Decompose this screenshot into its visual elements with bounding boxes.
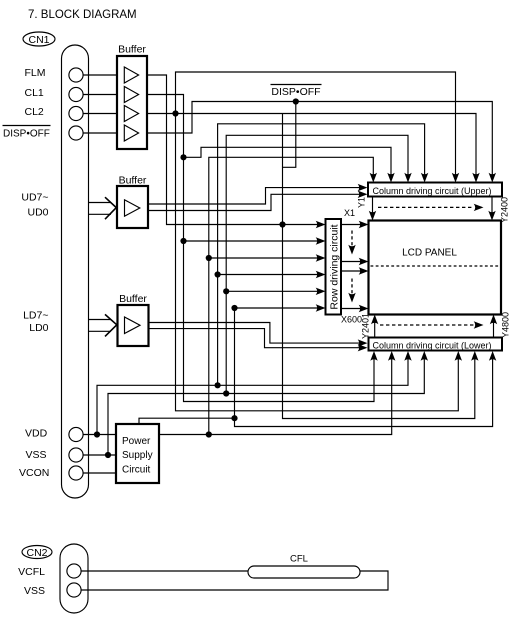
connector CN1 label [23,32,55,46]
wire UD bus to upper column line 1 [148,188,360,204]
connector CN2 label [22,546,52,559]
pin CL2 [25,106,84,121]
wire VDD raw row feed [218,274,318,276]
wire CL2 line to trunk segment [282,114,284,168]
pin VCFL [18,564,81,578]
svg-text:Power: Power [122,436,151,447]
svg-text:DISP•OFF: DISP•OFF [3,129,50,140]
pin VSS [26,448,84,462]
svg-text:Y4800: Y4800 [501,312,510,338]
svg-text:X600: X600 [341,315,362,325]
svg-text:FLM: FLM [25,67,46,79]
svg-text:X1: X1 [344,208,355,218]
svg-text:DISP•OFF: DISP•OFF [271,86,320,98]
wire row box to panel X600 arrow [341,308,361,310]
wire CL2 net [147,114,476,176]
dashed arrow Y2401 to Y4800 [380,324,474,326]
svg-text:Circuit: Circuit [122,465,151,476]
wire power box VDD output [159,359,392,435]
svg-text:Buffer: Buffer [118,44,146,56]
wire VDD raw branch [97,359,408,435]
power supply box [116,424,159,483]
wire CL1 upper branch [184,147,392,175]
pin DISP•OFF [3,126,84,141]
label LD7~LD0 [23,310,49,335]
wire upper box to panel left [372,197,374,214]
dashed arrow X1 sequence [351,231,353,247]
connector CN2 body [60,544,88,613]
svg-text:CN2: CN2 [26,547,47,559]
wire CL1 net [147,95,374,402]
wire VDD raw trunk up [218,124,425,386]
svg-text:VDD: VDD [25,428,48,440]
column driving circuit (Upper) box [368,183,502,197]
wire VCFL to CFL [81,570,248,572]
wire VCON pin to power box [83,472,116,474]
wire upper box to panel right [491,197,493,214]
column driving circuit (Lower) box [369,338,503,351]
label UD7~UD0 [21,192,48,219]
pin VCON [19,466,83,480]
wire power box top output [139,359,493,427]
wire VSS pin to power box [83,454,116,456]
wire LD bus input [89,314,117,336]
svg-text:7. BLOCK DIAGRAM: 7. BLOCK DIAGRAM [28,9,137,21]
dashed arrow X600 sequence [351,279,353,295]
buffer U2 box [117,175,148,229]
wire UD bus input [89,197,117,219]
wire CL1 row feed [184,240,318,242]
pin VDD [25,427,83,441]
wire power output trunk up [209,157,373,434]
svg-text:Y1: Y1 [357,197,367,208]
wire FLM pin to buffer [83,74,117,76]
svg-text:UD0: UD0 [27,207,48,219]
connector CN1 body [62,45,89,498]
row driving circuit box [326,219,342,315]
lamp CFL [248,554,360,579]
svg-text:LCD PANEL: LCD PANEL [402,248,457,259]
pin VSS CN2 [24,583,81,597]
wire CL2 pin to buffer [83,113,117,115]
svg-text:Y2400: Y2400 [500,197,510,223]
wire UD bus to upper column line 2 [148,194,360,210]
wire CL1 pin to buffer [83,94,117,96]
wire DISPOFF net [147,102,492,176]
svg-text:Row driving circuit: Row driving circuit [328,224,340,309]
svg-text:UD7~: UD7~ [21,192,48,204]
label DISP•OFF mid [271,85,322,99]
svg-text:Column driving circuit (Lower): Column driving circuit (Lower) [373,340,492,350]
svg-text:VCFL: VCFL [18,566,45,578]
svg-text:CN1: CN1 [28,34,49,46]
svg-text:VCON: VCON [19,467,49,479]
svg-text:VSS: VSS [24,585,45,597]
wire LD bus to lower column line 2 [149,329,360,348]
svg-text:Buffer: Buffer [119,293,147,305]
dashed arrow Y1 to Y2400 [378,206,474,208]
svg-text:LD0: LD0 [29,322,48,334]
wire row box to panel mid arrow b [341,270,361,272]
wire VSS raw branch [108,359,424,455]
pin CL1 [25,87,84,102]
wire lower box to panel right [493,322,495,338]
svg-text:CFL: CFL [290,554,308,565]
wire DISPOFF pin to buffer [83,132,117,134]
svg-text:Column driving circuit (Upper): Column driving circuit (Upper) [373,186,492,196]
wire CFL return loop [81,571,388,590]
svg-text:CL1: CL1 [25,87,44,99]
wire CL2 branch up [176,72,456,175]
buffer U3 box [118,293,149,346]
wire FLM net to row driver [147,75,318,225]
wire row box to panel X1 arrow [341,224,361,226]
svg-text:Buffer: Buffer [119,175,147,187]
wire DISPOFF branch down [283,102,475,419]
wire power top trunk [234,308,236,418]
svg-text:VSS: VSS [26,449,47,461]
LCD panel box [369,221,502,315]
wire power output row feed [209,257,318,259]
buffer U1 box [117,44,147,150]
wire row box to panel mid arrow a [341,261,361,263]
svg-text:CL2: CL2 [25,106,44,118]
svg-text:Supply: Supply [122,450,153,461]
wire VSS raw row feed [226,290,317,292]
wire CL2 branch down [176,114,459,411]
wire power top row feed [235,307,318,309]
wire VDD pin to power box [83,434,116,436]
svg-text:LD7~: LD7~ [23,310,48,322]
pin FLM [25,67,84,82]
wire LD bus to lower column line 1 [149,323,360,344]
wire lower box to panel left [374,322,376,338]
wire VSS raw trunk up [226,135,408,393]
svg-text:Y2401: Y2401 [361,313,371,339]
